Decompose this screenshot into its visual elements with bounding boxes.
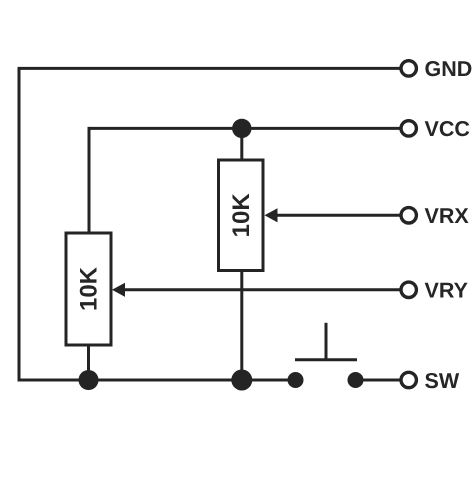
junction node at left resistor bottom — [79, 370, 99, 390]
terminal SW — [401, 372, 416, 387]
wire: top horizontal GND wire — [18, 67, 400, 70]
switch SW1 left contact — [288, 372, 304, 388]
svg-text:VRX: VRX — [425, 204, 470, 228]
junction node at right resistor bottom — [231, 370, 252, 391]
wiper arrow of R2 — [112, 283, 125, 297]
wire: vertical from VCC junction down to right resistor top — [240, 128, 243, 160]
wiper arrow of R1 — [265, 208, 278, 222]
wire: left vertical rail (GND to bottom rail) — [18, 68, 21, 380]
svg-text:VCC: VCC — [425, 117, 470, 141]
wire: bottom rail from left rail to switch contact — [18, 379, 296, 382]
potentiometer body R2 (vertical, left) — [66, 233, 111, 345]
svg-text:10K: 10K — [76, 266, 103, 311]
terminal VRY — [401, 282, 416, 297]
terminal VRX — [401, 208, 416, 223]
wire: VRX wire — [272, 214, 400, 217]
wire: vertical from VCC wire down to left resistor top — [88, 127, 91, 233]
potentiometer body R1 (vertical, right) — [219, 160, 264, 271]
switch SW1 bar — [295, 358, 357, 361]
terminal GND — [401, 61, 416, 76]
terminal VCC — [401, 121, 416, 136]
switch SW1 actuator — [325, 323, 328, 360]
wire: VCC horizontal wire — [89, 127, 400, 130]
svg-text:10K: 10K — [228, 193, 255, 238]
wire: from switch right contact to SW terminal — [356, 379, 400, 382]
junction node on VCC wire — [232, 119, 251, 138]
wire: vertical from left resistor bottom to bottom rail — [87, 345, 90, 380]
svg-text:GND: GND — [425, 57, 473, 81]
svg-text:VRY: VRY — [425, 279, 468, 303]
svg-text:SW: SW — [425, 369, 460, 393]
wire: vertical from right resistor bottom to bottom junction — [240, 271, 243, 381]
wire: VRY wire — [120, 288, 400, 291]
switch SW1 right contact — [348, 372, 364, 388]
